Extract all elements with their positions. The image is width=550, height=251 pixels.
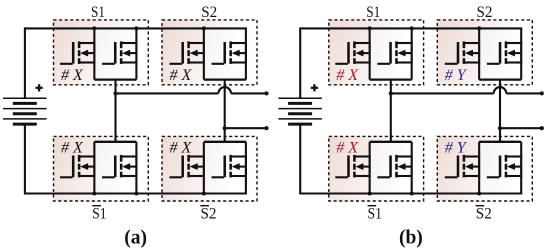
svg-text:# Y: # Y [445, 139, 468, 156]
svg-text:(a): (a) [124, 228, 147, 249]
svg-text:S2: S2 [201, 206, 217, 223]
svg-text:S2: S2 [477, 4, 493, 21]
svg-text:S1: S1 [367, 206, 382, 223]
svg-text:# X: # X [336, 67, 359, 84]
svg-text:S1: S1 [366, 4, 380, 21]
svg-text:# Y: # Y [445, 67, 468, 84]
svg-text:# X: # X [170, 67, 193, 84]
svg-text:S2: S2 [476, 206, 492, 223]
svg-text:# X: # X [61, 139, 84, 156]
svg-text:S1: S1 [92, 206, 107, 223]
svg-text:S2: S2 [201, 4, 217, 21]
svg-text:# X: # X [61, 67, 84, 84]
svg-text:(b): (b) [399, 228, 423, 249]
svg-text:# X: # X [170, 139, 193, 156]
svg-text:S1: S1 [91, 4, 105, 21]
svg-text:# X: # X [336, 139, 359, 156]
